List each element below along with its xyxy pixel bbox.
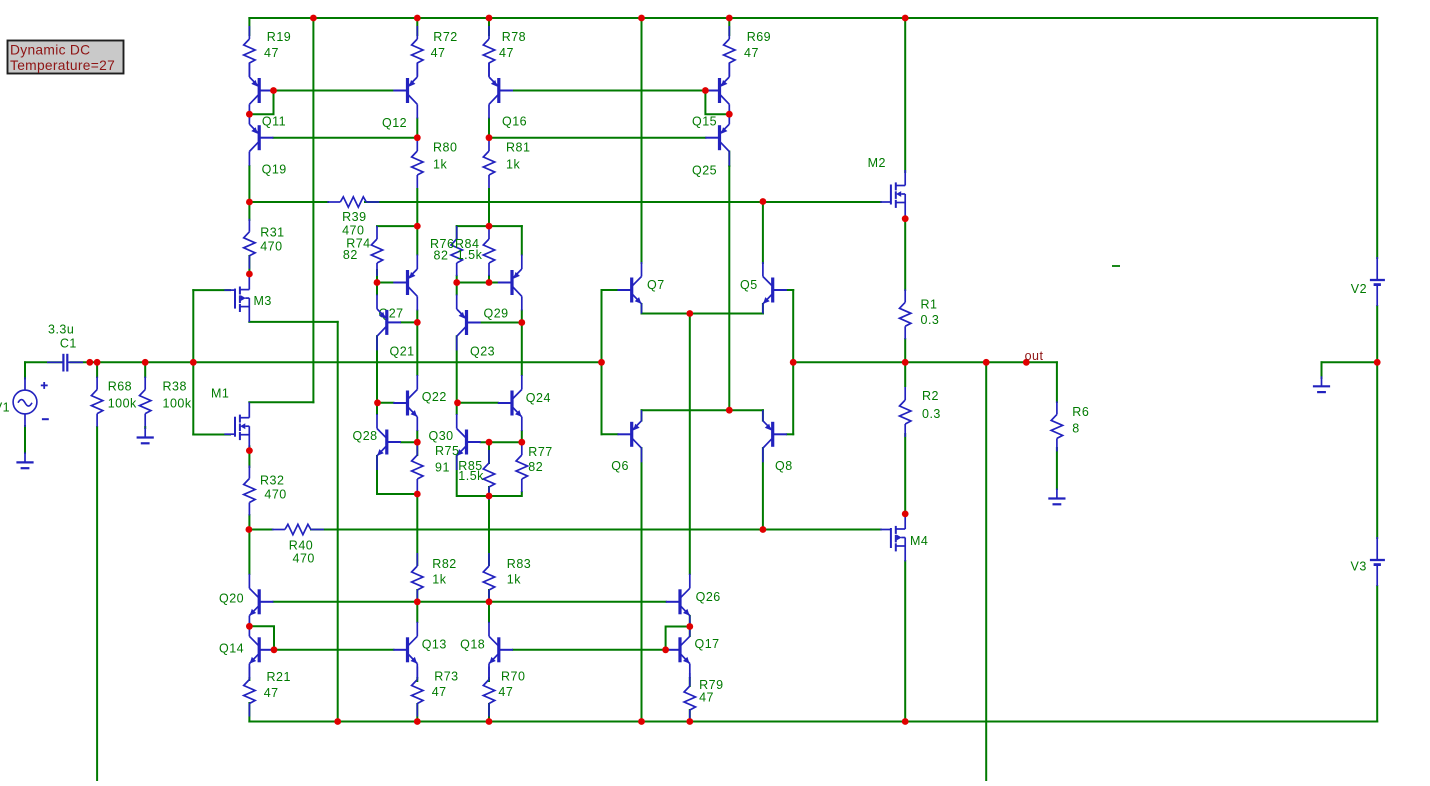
svg-text:1k: 1k [506,158,520,172]
junction [902,718,909,725]
wire Q29 collector [521,311,523,323]
wire Q23 base [481,322,522,324]
svg-text:470: 470 [342,223,364,237]
wire bottom emitter rail [642,409,763,411]
svg-text:47: 47 [499,46,514,60]
ground supplies [1313,376,1330,392]
junction [414,598,421,605]
wire Q18 emitter to R70 [488,678,490,681]
resistor R74 (82) [343,226,383,276]
wire Q25 base rail [489,137,705,139]
svg-text:R73: R73 [434,669,458,683]
junction [310,15,317,22]
junction [414,134,421,141]
wire R21 to rail [248,703,250,722]
svg-text:R72: R72 [433,30,457,44]
wire out down off-page [985,362,987,781]
wire Q22 emitter [416,431,418,442]
wire Q5 base [787,289,793,291]
junction [190,359,197,366]
wire Q13 collector [416,602,418,622]
resistor R2 (0.3) [900,387,941,437]
wire R83 bottom [488,590,490,602]
svg-text:R32: R32 [260,474,284,488]
svg-text:Q15: Q15 [692,115,717,129]
svg-text:47: 47 [264,686,279,700]
junction [902,359,909,366]
junction [686,310,693,317]
capacitor C1 (3.3u) [47,323,83,372]
junction [486,15,493,22]
wire Q27 base [377,282,394,284]
wire to Q30 collector [456,403,458,414]
wire Q19 base rail [273,137,417,139]
npn transistor Q20 [219,574,273,630]
resistor R79 (47) [684,673,723,723]
junction [414,319,421,326]
wire R80 to node [416,189,418,226]
svg-text:R82: R82 [432,557,456,571]
voltage source V2 (battery) [1351,257,1385,306]
wire to M1 gate [193,434,230,436]
wire R38 to ground [144,427,146,428]
wire Q28 emitter route [377,456,417,494]
wire Q14 to Q13 base [274,649,394,651]
svg-text:V1: V1 [0,401,10,415]
wire to Q20 emitter [248,530,250,575]
junction [246,526,253,533]
svg-text:82: 82 [434,249,449,263]
svg-text:1k: 1k [507,573,521,587]
wire Q25 collector stub [728,152,730,167]
resistor R68 (100k) [91,377,137,427]
wire Q19 collector to R31 [248,166,250,220]
svg-text:470: 470 [260,240,282,254]
junction [270,87,277,94]
pnp transistor Q23 [457,295,495,359]
junction [414,439,421,446]
wire Q11 base to Q12 base [274,90,394,92]
wire M1 source to R32 [248,446,250,467]
pnp transistor Q29 [484,255,522,321]
wire Q20 base rail [273,601,665,603]
wire Q6 base [602,433,618,435]
svg-text:R38: R38 [163,380,187,394]
resistor R69 (47) [724,26,772,76]
svg-text:R69: R69 [747,30,771,44]
svg-text:Q17: Q17 [695,637,720,651]
svg-text:M3: M3 [254,294,272,308]
junction [486,439,493,446]
wire R2 to M4 source [904,434,906,514]
resistor R38 (100k) [140,377,192,427]
resistor R75 (91) [412,442,460,492]
wire Q17 emitter to R79 [689,678,691,686]
svg-text:R21: R21 [267,670,291,684]
svg-text:100k: 100k [108,396,137,410]
wire Q8 base [787,433,793,435]
wire Q26 emitter Q17 collector [689,616,691,636]
wire top emitter rail [642,313,763,315]
svg-text:100k: 100k [163,396,192,410]
pnp transistor Q6 [611,410,641,473]
wire node bias-n left [249,529,273,531]
wire Q11 diode loop [249,91,273,115]
wire M4 drain to rail [904,561,906,722]
svg-text:82: 82 [528,460,543,474]
wire diamond right rail [792,290,794,434]
svg-text:1k: 1k [433,158,447,172]
resistor R21 (47) [244,667,291,717]
nmos transistor M1 [211,387,249,451]
wire M3 drain [249,321,337,323]
wire Q25 collector down [728,166,730,410]
junction [86,359,93,366]
resistor R82 (1k) [412,553,457,603]
wire Q17 diode loop [666,627,690,650]
wire rail to R19 [248,18,250,35]
svg-text:Q18: Q18 [460,638,485,652]
wire node bias-n to M4 gate [311,529,881,531]
junction [414,223,421,230]
wire M1 drain [249,401,313,403]
wire R74 bottom to Q27 base node [376,270,378,294]
wire to R6 [1056,362,1058,402]
wire input node [71,361,602,363]
wire M3 drain to V- rail [337,322,339,722]
svg-text:Q25: Q25 [692,164,717,178]
resistor R40 (470) [272,524,324,565]
svg-text:C1: C1 [60,337,77,351]
wire to V1 plus [24,362,26,378]
wire V+ top rail [249,17,1377,19]
junction [486,134,493,141]
svg-text:47: 47 [432,685,447,699]
svg-text:Q22: Q22 [422,390,447,404]
svg-text:Q21: Q21 [390,344,415,358]
npn transistor Q13 [393,622,447,678]
svg-text:470: 470 [293,552,315,566]
svg-text:47: 47 [431,46,446,60]
svg-text:47: 47 [744,46,759,60]
svg-text:out: out [1025,349,1044,363]
svg-text:R2: R2 [922,389,939,403]
junction [1374,359,1381,366]
wire V3 minus [1376,586,1378,722]
svg-text:1.5k: 1.5k [457,248,483,262]
ground R6 [1048,489,1065,505]
svg-text:Q30: Q30 [429,429,454,443]
resistor R31 (470) [244,219,285,269]
pnp transistor Q15 [692,63,729,129]
junction [760,198,767,205]
junction [414,491,421,498]
svg-text:Q12: Q12 [382,116,407,130]
junction [486,718,493,725]
svg-text:Q13: Q13 [422,638,447,652]
resistor R76 (82) [430,226,462,276]
wire R79 to rail [689,710,691,722]
junction [486,279,493,286]
svg-text:M2: M2 [868,156,886,170]
svg-text:R75: R75 [435,444,459,458]
wire rail to R78 [488,18,490,35]
junction [902,215,909,222]
wire R76 R84 top [457,225,522,227]
wire Q8 emitter [762,410,764,420]
wire Q13 emitter to R73 [416,678,418,681]
wire Q8 collector down [762,448,764,529]
wire to V2 [1376,18,1378,258]
junction [334,718,341,725]
wire to ground [1322,361,1378,363]
junction [246,271,253,278]
wire Q23 Q29 base rail [457,282,498,284]
svg-text:R68: R68 [108,380,132,394]
resistor R72 (47) [412,26,458,76]
junction [662,646,669,653]
svg-text:R39: R39 [342,210,366,224]
npn transistor Q24 [498,375,551,431]
wire rail to R69 [728,18,730,35]
npn transistor Q5 [740,262,787,314]
pmos transistor M4 [880,514,928,562]
svg-text:R31: R31 [260,226,284,240]
wire Q14 diode loop [249,626,274,650]
junction [760,526,767,533]
wire Q18 collector [488,602,490,622]
pnp transistor Q21 [377,294,415,358]
pnp transistor Q27 [379,255,418,321]
wire Q21 base [401,321,417,323]
wire Q7 base [602,289,618,291]
wire Q14 emitter to R21 [248,678,250,680]
svg-text:47: 47 [264,46,279,60]
svg-text:3.3u: 3.3u [48,323,74,337]
svg-text:Q14: Q14 [219,642,244,656]
wire Q21 emitter down [376,336,378,403]
voltage source V1 (sine) [0,377,49,427]
wire to R85 [488,442,490,463]
wire V2 minus [1376,306,1378,362]
wire Q24 emitter [521,431,523,442]
wire to V3 [1376,362,1378,538]
junction [486,598,493,605]
pnp transistor Q16 [489,63,527,129]
svg-text:Q28: Q28 [353,429,378,443]
wire R85 bottom [488,487,490,496]
junction [246,447,253,454]
svg-text:Q29: Q29 [484,307,509,321]
wire Q16 base to Q15 base [513,90,706,92]
npn transistor Q18 [460,622,513,678]
svg-text:M4: M4 [910,534,928,548]
wire M2 source to R1 [904,219,906,290]
svg-text:V3: V3 [1351,560,1367,574]
pnp transistor Q8 [763,410,793,473]
wire Q27 collector [416,311,418,323]
wire R84 bottom [488,276,490,283]
wire Q7 collector to rail [641,18,643,263]
wire M1 drain to V+ rail [312,18,314,402]
wire R75 to R82 [416,492,418,565]
junction [790,359,797,366]
junction [638,15,645,22]
wire Q23 emitter down [456,336,458,403]
nmos transistor M2 [868,156,906,218]
resistor R77 (82) [516,442,553,492]
wire to R75 [416,442,418,455]
pnp transistor Q11 [249,63,286,129]
wire rail to M2 drain [904,18,906,172]
wire to Q24 collector [521,323,523,376]
junction [726,15,733,22]
wire to R68 [96,362,98,377]
wire Q6 collector to rail [641,448,643,721]
wire R73 to rail [416,704,418,722]
svg-text:0.3: 0.3 [922,407,941,421]
svg-text:91: 91 [435,461,450,475]
wire center to Q26 collector [689,314,691,575]
wire R6 to ground [1056,448,1058,489]
resistor R85 (1.5k) [458,450,494,500]
voltage source V3 (battery) [1351,537,1385,586]
svg-text:R40: R40 [289,539,313,553]
wire Q6 emitter [641,410,643,420]
wire to Q29 emitter [521,226,523,254]
resistor R83 (1k) [483,553,531,603]
resistor R70 (47) [483,667,525,717]
npn transistor Q17 [666,622,720,678]
wire Q28 base [401,441,417,443]
svg-text:Q7: Q7 [647,278,665,292]
svg-text:1.5k: 1.5k [458,469,484,483]
svg-text:Dynamic DC: Dynamic DC [10,43,90,58]
wire Q5 collector up [762,202,764,264]
wire to Q28 collector [376,403,378,414]
wire R68 down off-page [96,427,98,781]
wire Q15 diode loop [705,91,729,115]
npn transistor Q7 [618,262,665,314]
wire ground stub [1321,362,1323,378]
junction [374,279,381,286]
svg-text:Q19: Q19 [262,163,287,177]
wire diamond left rail [601,290,603,434]
wire to R38 [144,362,146,377]
wire R76 bottom [456,276,458,295]
wire rail to R72 [416,18,418,35]
svg-text:8: 8 [1072,422,1079,436]
svg-text:R78: R78 [502,30,526,44]
svg-text:Q8: Q8 [775,459,793,473]
junction [94,359,101,366]
svg-text:R83: R83 [507,557,531,571]
wire to M3 gate [193,289,230,291]
annotation box Dynamic DC [8,41,124,74]
junction [686,718,693,725]
wire Q22 base rail [378,402,394,404]
wire R70 to rail [488,704,490,722]
wire to Q27 emitter [416,226,418,254]
junction [414,718,421,725]
npn transistor Q26 [666,574,721,630]
junction [726,407,733,414]
svg-text:82: 82 [343,248,358,262]
pmos transistor M3 [224,274,272,322]
comment dash [1112,265,1120,267]
junction [453,279,460,286]
junction [246,111,253,118]
npn transistor Q30 [429,414,481,470]
wire R74 top [377,225,417,227]
resistor R81 (1k) [483,138,530,188]
wire Q12 collector [416,119,418,138]
wire Q18 to Q17 base [513,649,666,651]
wire out to R2 [904,362,906,386]
wire R1 to out [904,339,906,362]
wire Q16 collector [488,119,490,138]
resistor R78 (47) [483,26,526,76]
npn transistor Q28 [353,414,402,470]
wire V1 minus to ground [24,426,26,453]
svg-text:47: 47 [498,685,513,699]
junction [518,439,525,446]
wire Q7 emitter [641,304,643,314]
resistor R19 (47) [244,26,292,76]
pnp transistor Q12 [382,63,417,130]
svg-text:Q20: Q20 [219,591,244,605]
pnp transistor Q19 [249,110,286,177]
junction [598,359,605,366]
svg-text:Q16: Q16 [502,115,527,129]
junction [902,511,909,518]
junction [374,399,381,406]
svg-text:0.3: 0.3 [921,313,940,327]
junction [271,646,278,653]
wire V1 to C1 [25,361,63,363]
wire R82 bottom [416,590,418,602]
svg-text:Q11: Q11 [262,115,286,129]
npn transistor Q14 [219,622,273,678]
svg-text:Q5: Q5 [740,278,758,292]
svg-text:Q6: Q6 [611,459,629,473]
svg-text:47: 47 [699,691,714,705]
resistor R80 (1k) [412,138,458,188]
svg-text:470: 470 [264,488,286,502]
svg-text:Q26: Q26 [696,590,721,604]
wire Q30 base rail [481,441,522,443]
svg-text:R70: R70 [501,669,525,683]
svg-text:R1: R1 [921,298,938,312]
svg-text:Temperature=27: Temperature=27 [10,58,115,73]
junction [454,399,461,406]
wire Q24 base rail [458,402,498,404]
svg-text:R80: R80 [433,140,457,154]
resistor R32 (470) [244,466,287,516]
wire Q30 emitter route [457,456,522,496]
wire R31 to M3 [248,256,250,274]
junction [142,359,149,366]
wire down to R83 [488,496,490,565]
wire node bias-p left [249,201,328,203]
ground R38 [137,428,154,444]
svg-text:R19: R19 [267,30,291,44]
junction [486,223,493,230]
junction [246,199,253,206]
svg-text:R77: R77 [528,445,552,459]
resistor R6 (8) [1051,401,1089,451]
wire to Q22 collector [416,322,418,375]
